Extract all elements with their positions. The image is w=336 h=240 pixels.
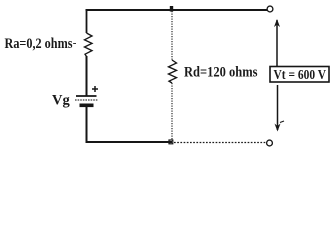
svg-text:Vg: Vg <box>52 93 70 109</box>
svg-text:-: - <box>73 37 77 49</box>
svg-text:Ra=0,2 ohms: Ra=0,2 ohms <box>5 36 73 52</box>
svg-text:Rd=120 ohms: Rd=120 ohms <box>184 64 258 80</box>
svg-text:Vt = 600 V: Vt = 600 V <box>274 67 327 82</box>
